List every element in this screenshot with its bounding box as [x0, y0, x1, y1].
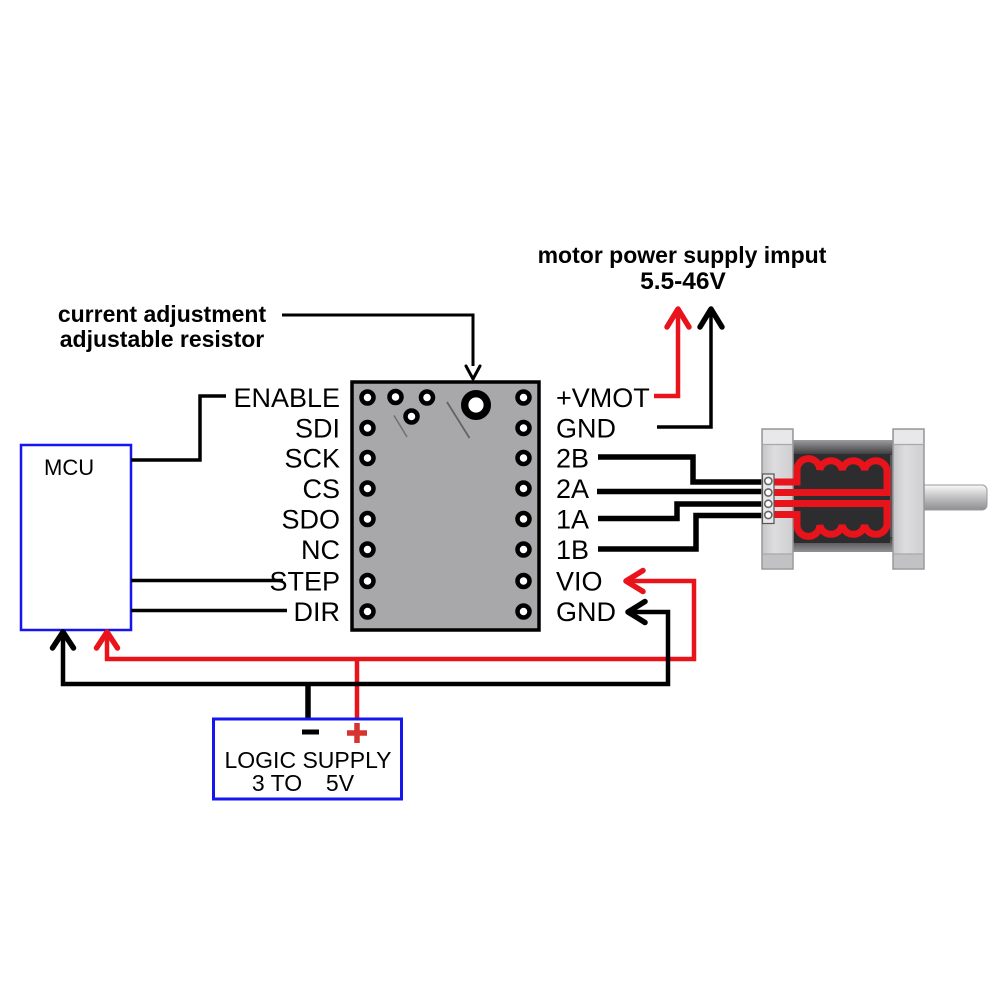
svg-text:LOGIC SUPPLY: LOGIC SUPPLY: [224, 747, 391, 773]
wire: 2A to motor coil: [597, 489, 768, 495]
via hole B: [421, 392, 433, 404]
LOGIC SUPPLY box: [214, 719, 402, 799]
svg-text:1A: 1A: [556, 505, 589, 535]
driver board U1 (stepper driver module): [352, 382, 539, 630]
motor right end cap: [893, 429, 924, 569]
wire: MCU to DIR: [131, 609, 287, 613]
annotation: motor power supply input 5.5-46V: [538, 242, 827, 295]
svg-text:GND: GND: [556, 597, 616, 627]
motor interior (dark): [793, 454, 890, 543]
motor left end cap: [762, 429, 793, 569]
svg-text:motor power supply imput: motor power supply imput: [538, 242, 827, 268]
svg-text:DIR: DIR: [294, 597, 341, 627]
svg-text:CS: CS: [302, 474, 340, 504]
MCU box: [21, 445, 131, 630]
svg-text:1B: 1B: [556, 535, 589, 565]
wire: 1A to motor coil: [598, 504, 768, 519]
svg-text:3 TO: 3 TO: [252, 770, 302, 796]
svg-text:+VMOT: +VMOT: [556, 383, 650, 413]
svg-text:VIO: VIO: [556, 567, 603, 597]
svg-text:5V: 5V: [326, 770, 355, 796]
terminal minus: [302, 730, 319, 735]
svg-text:2A: 2A: [556, 474, 589, 504]
coil phase 1 (bottom winding): [768, 504, 887, 537]
annotation: current adjustment adjustable resistor: [58, 301, 267, 352]
svg-text:5.5-46V: 5.5-46V: [640, 268, 726, 295]
svg-text:GND: GND: [556, 414, 616, 444]
wire: MCU to STEP: [131, 579, 283, 583]
wire: annotation line to trim pot with down arrow: [282, 315, 480, 379]
terminal plus: [347, 723, 367, 743]
via hole A: [390, 391, 402, 403]
wire: MCU to ENABLE: [131, 396, 226, 460]
trim pot (current adjustment resistor): [465, 394, 488, 417]
svg-text:current adjustment: current adjustment: [58, 301, 267, 327]
svg-text:MCU: MCU: [44, 455, 94, 480]
stepper motor: [762, 429, 987, 569]
coil phase 2 (top winding): [768, 459, 887, 493]
motor body shell: [793, 440, 893, 552]
svg-text:STEP: STEP: [269, 567, 340, 597]
svg-text:SCK: SCK: [284, 444, 340, 474]
svg-text:SDI: SDI: [295, 414, 340, 444]
svg-text:SDO: SDO: [281, 505, 340, 535]
svg-text:ENABLE: ENABLE: [233, 383, 340, 413]
motor shaft: [920, 485, 987, 510]
wire: red logic supply + to VIO and MCU (arrows): [97, 571, 695, 720]
wire: 2B to motor coil: [598, 457, 768, 482]
svg-text:2B: 2B: [556, 444, 589, 474]
hairline scratch 1 on board: [394, 416, 407, 438]
hairline scratch 2 on board: [447, 402, 470, 438]
right pin holes column: [518, 392, 530, 618]
left pin holes column: [362, 392, 374, 618]
svg-text:NC: NC: [301, 535, 340, 565]
motor connector: [763, 474, 775, 524]
wire: red +VMOT to motor power supply (arrow up): [654, 309, 689, 396]
via hole C: [406, 411, 418, 423]
svg-text:adjustable resistor: adjustable resistor: [60, 326, 265, 352]
wire: black logic supply - to GND and MCU (arrows): [53, 602, 669, 720]
wire: 1B to motor coil: [598, 516, 768, 550]
wire: black GND to motor power supply (arrow up): [657, 309, 722, 427]
